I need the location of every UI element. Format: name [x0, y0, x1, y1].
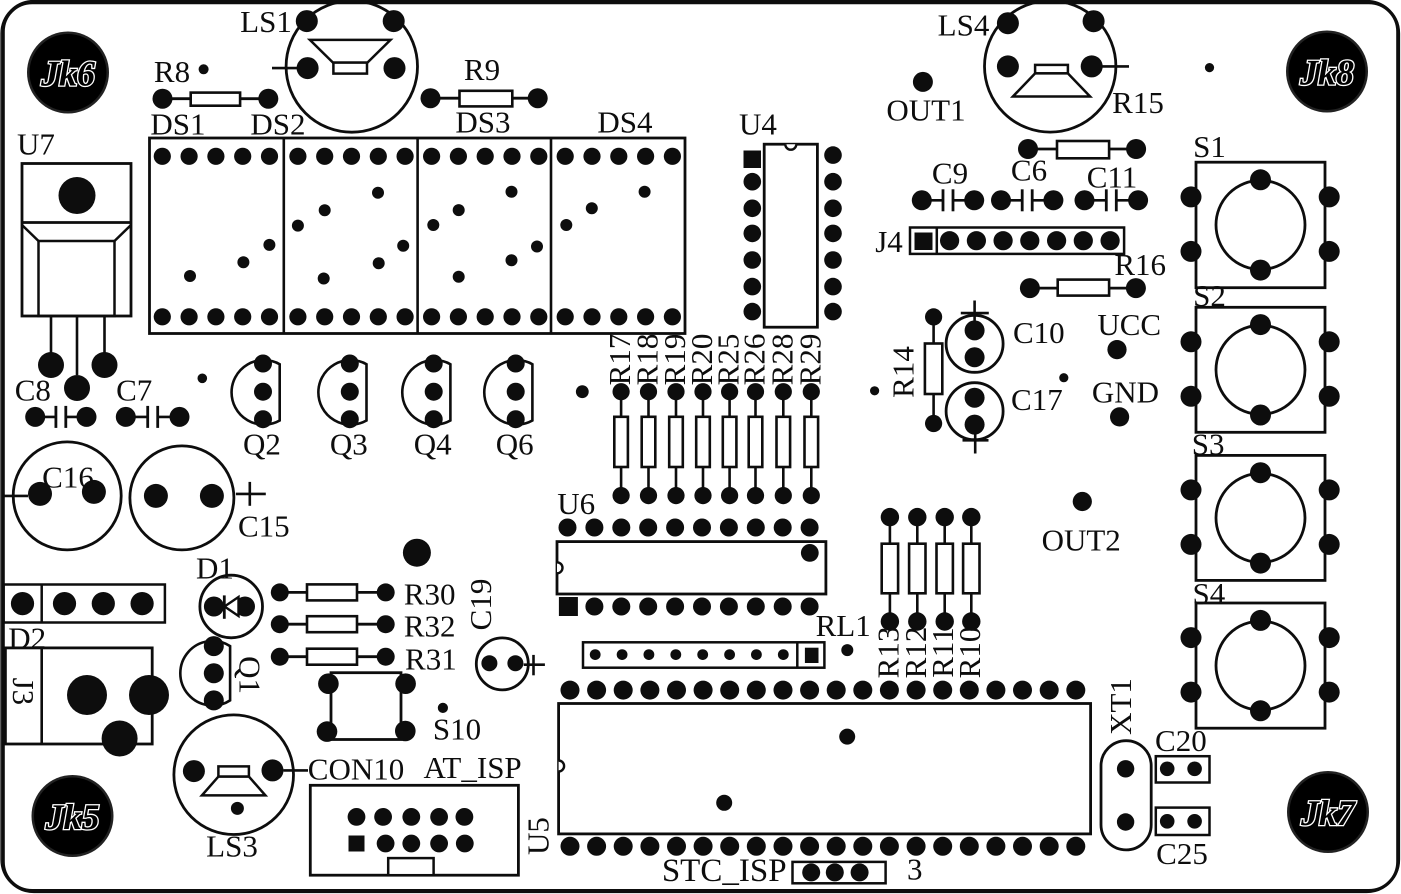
mounting hole Jk7: [1287, 771, 1369, 853]
transistor Q6: [484, 355, 532, 429]
resistor R32: [271, 615, 395, 633]
diode header D2 label: [8, 621, 46, 656]
regulator U7 label: [17, 127, 55, 162]
via left of R14: [870, 386, 879, 395]
mounting hole Jk8: [1286, 31, 1368, 113]
display inner dots: [184, 186, 651, 285]
resistor R14: [925, 308, 942, 432]
resistor R26: [747, 383, 764, 504]
net label UCC: [1097, 307, 1161, 359]
svg-text:Jk6: Jk6: [40, 54, 95, 94]
resistor R18: [640, 383, 657, 504]
svg-text:C8: C8: [15, 373, 51, 408]
svg-text:AT_ISP: AT_ISP: [423, 750, 521, 785]
svg-text:C25: C25: [1156, 836, 1208, 871]
svg-text:R32: R32: [404, 609, 456, 644]
capacitor C10: [946, 301, 1003, 373]
capacitor C7: [116, 406, 190, 428]
IC U4 label: [739, 107, 777, 142]
capacitor C19 label: [463, 579, 498, 631]
net label GND: [1092, 374, 1159, 426]
svg-text:U4: U4: [739, 107, 777, 142]
capacitor C9: [912, 189, 984, 211]
regulator U7: [22, 164, 131, 402]
resistor R14 label: [886, 346, 921, 398]
speaker LS4: [984, 1, 1129, 132]
svg-text:Q4: Q4: [414, 426, 452, 461]
svg-text:R29: R29: [792, 334, 827, 386]
button S10: [317, 673, 416, 742]
resistor R10: [962, 508, 980, 631]
svg-text:Q3: Q3: [330, 426, 368, 461]
svg-text:GND: GND: [1092, 374, 1159, 409]
svg-text:Q2: Q2: [243, 426, 281, 461]
connector CON10 label: [284, 752, 405, 787]
svg-text:S10: S10: [433, 712, 481, 747]
resistor R26 label: [737, 334, 772, 386]
resistor R20 label: [684, 334, 719, 386]
resistor R8 label: [154, 54, 190, 89]
svg-text:R15: R15: [1112, 85, 1164, 120]
diode D1 label: [196, 551, 234, 586]
button S3 label: [1192, 426, 1225, 461]
svg-text:Q1: Q1: [233, 656, 268, 694]
resistor R25 label: [711, 334, 746, 386]
connector AT_ISP label: [423, 750, 521, 785]
svg-text:CON10: CON10: [308, 752, 404, 787]
relay header RL1: [583, 642, 824, 667]
svg-text:U6: U6: [557, 486, 595, 521]
svg-text:Q6: Q6: [496, 426, 534, 461]
capacitor C25 label: [1156, 836, 1208, 871]
svg-text:Jk5: Jk5: [45, 797, 100, 837]
resistor R18 label: [630, 334, 665, 386]
header STC_ISP: [793, 862, 886, 883]
resistor R30 label: [404, 577, 456, 612]
transistor Q3: [318, 355, 366, 429]
svg-text:RL1: RL1: [816, 608, 871, 643]
svg-text:C19: C19: [463, 579, 498, 631]
speaker LS1: [272, 1, 417, 132]
transistor Q1: [180, 636, 230, 710]
resistor R31 label: [405, 642, 457, 677]
svg-text:C11: C11: [1087, 160, 1138, 195]
svg-text:DS2: DS2: [250, 107, 305, 142]
svg-text:C10: C10: [1013, 315, 1065, 350]
resistor R31: [271, 648, 395, 666]
svg-text:C17: C17: [1011, 382, 1063, 417]
capacitor C15: [130, 446, 290, 550]
resistor R20: [694, 383, 711, 504]
button S3: [1181, 455, 1340, 580]
IC U6 label: [557, 486, 595, 521]
button S4 label: [1193, 576, 1226, 611]
header STC_ISP label: [662, 853, 787, 889]
connector CON10 AT_ISP: [310, 785, 518, 875]
resistor R15: [1018, 139, 1146, 159]
via near R8: [199, 64, 209, 74]
resistor R30: [271, 583, 395, 601]
resistor R17 label: [602, 334, 637, 386]
transistor Q4 label: [414, 426, 452, 461]
capacitor C20: [1156, 756, 1210, 782]
via between UCC and GND: [1059, 373, 1068, 382]
svg-text:UCC: UCC: [1097, 307, 1161, 342]
svg-text:S4: S4: [1193, 576, 1226, 611]
capacitor C10 label: [1013, 315, 1065, 350]
capacitor C8 label: [15, 373, 51, 408]
connector J3 label: [6, 678, 41, 706]
resistor R12 label: [898, 627, 933, 679]
via above R30: [403, 539, 431, 567]
button S4: [1181, 603, 1340, 728]
speaker LS4 label: [938, 8, 990, 43]
diode D1: [200, 575, 263, 638]
crystal XT1 label: [1103, 678, 1138, 735]
resistor R9: [421, 88, 548, 108]
capacitor C25: [1156, 808, 1210, 835]
button S1: [1181, 162, 1340, 288]
svg-text:R31: R31: [405, 642, 457, 677]
capacitor C17 label: [1011, 382, 1063, 417]
svg-text:U5: U5: [521, 817, 556, 855]
speaker LS3 label: [206, 828, 258, 863]
capacitor C11 label: [1087, 160, 1138, 195]
resistor R11: [936, 508, 954, 631]
IC U4: [744, 144, 842, 327]
button S2 label: [1193, 278, 1226, 313]
transistor Q2 label: [243, 426, 281, 461]
resistor R9 label: [464, 52, 500, 87]
svg-text:J4: J4: [875, 224, 903, 259]
speaker LS1 label: [240, 4, 292, 39]
capacitor C9 label: [932, 156, 968, 191]
test point OUT2: [1042, 492, 1121, 558]
svg-text:Jk8: Jk8: [1299, 53, 1354, 93]
capacitor C17: [946, 383, 1003, 454]
resistor R29 label: [792, 334, 827, 386]
capacitor C20 label: [1155, 723, 1207, 758]
svg-text:DS3: DS3: [455, 105, 510, 140]
resistor R17: [613, 383, 630, 504]
diode header D2: [4, 585, 165, 623]
svg-text:R8: R8: [154, 54, 190, 89]
svg-text:R16: R16: [1114, 247, 1166, 282]
via left of Jk8: [1205, 63, 1214, 72]
resistor R29: [803, 383, 820, 504]
display DS3 label: [455, 105, 510, 140]
resistor R19 label: [657, 334, 692, 386]
resistor R28: [775, 383, 792, 504]
speaker LS3: [174, 715, 294, 835]
svg-text:C20: C20: [1155, 723, 1207, 758]
svg-text:C15: C15: [238, 508, 290, 543]
resistor R13 label: [870, 627, 905, 679]
svg-text:C6: C6: [1011, 153, 1047, 188]
capacitor C16: [3, 442, 121, 550]
button S10 label: [433, 712, 481, 747]
display DS2 label: [250, 107, 305, 142]
svg-text:R9: R9: [464, 52, 500, 87]
crystal XT1: [1101, 741, 1151, 850]
via right of RL1: [841, 644, 853, 656]
header J4 label: [875, 224, 903, 259]
mounting hole Jk5: [32, 775, 114, 857]
transistor Q1 label: [233, 656, 268, 694]
resistor R10 label: [952, 627, 987, 679]
svg-text:OUT2: OUT2: [1042, 523, 1121, 558]
svg-text:R14: R14: [886, 346, 921, 398]
svg-text:LS4: LS4: [938, 8, 990, 43]
test point OUT1: [886, 72, 965, 128]
display DS4 label: [597, 105, 653, 140]
IC U6: [557, 519, 826, 617]
capacitor C7 label: [116, 373, 152, 408]
svg-text:STC_ISP: STC_ISP: [662, 853, 787, 889]
svg-text:C16: C16: [42, 460, 94, 495]
resistor R32 label: [404, 609, 456, 644]
svg-text:R30: R30: [404, 577, 456, 612]
svg-text:J3: J3: [6, 678, 41, 706]
resistor R19: [667, 383, 684, 504]
svg-text:DS1: DS1: [150, 107, 205, 142]
resistor R16 label: [1114, 247, 1166, 282]
header J4: [910, 228, 1124, 254]
svg-text:U7: U7: [17, 127, 55, 162]
IC U5: [559, 681, 1091, 856]
pin number 3: [907, 852, 923, 887]
svg-text:DS4: DS4: [597, 105, 653, 140]
capacitor C6 label: [1011, 153, 1047, 188]
via right of C7: [198, 374, 208, 384]
resistor R8: [153, 89, 279, 109]
connector J3: [5, 648, 169, 757]
transistor Q4: [402, 355, 450, 429]
capacitor C19: [476, 638, 545, 690]
IC U5 label: [521, 817, 556, 855]
svg-text:LS1: LS1: [240, 4, 292, 39]
svg-text:Jk7: Jk7: [1300, 793, 1357, 833]
resistor R11 label: [925, 627, 960, 678]
via right of S10: [438, 703, 448, 713]
via left of R17: [576, 385, 589, 398]
transistor Q3 label: [330, 426, 368, 461]
button S1 label: [1193, 129, 1226, 164]
svg-text:XT1: XT1: [1103, 678, 1138, 735]
capacitor C8: [25, 406, 96, 428]
svg-text:3: 3: [907, 852, 923, 887]
display pin pads: [154, 148, 681, 326]
svg-text:OUT1: OUT1: [886, 93, 965, 128]
svg-text:C7: C7: [116, 373, 152, 408]
svg-text:C9: C9: [932, 156, 968, 191]
capacitor C11: [1075, 189, 1149, 211]
display block outline: [150, 138, 686, 334]
resistor R16: [1020, 278, 1146, 298]
transistor Q6 label: [496, 426, 534, 461]
resistor R28 label: [764, 334, 799, 386]
svg-text:R10: R10: [952, 627, 987, 679]
button S2: [1181, 307, 1340, 432]
svg-text:S1: S1: [1193, 129, 1226, 164]
capacitor C6: [991, 189, 1063, 211]
resistor R15 label: [1112, 85, 1164, 120]
resistor R13: [881, 508, 899, 631]
display DS1 label: [150, 107, 205, 142]
relay header RL1 label: [816, 608, 871, 643]
resistor R12: [908, 508, 926, 631]
resistor R25: [721, 383, 738, 504]
mounting hole Jk6: [27, 32, 109, 114]
transistor Q2: [232, 355, 280, 429]
